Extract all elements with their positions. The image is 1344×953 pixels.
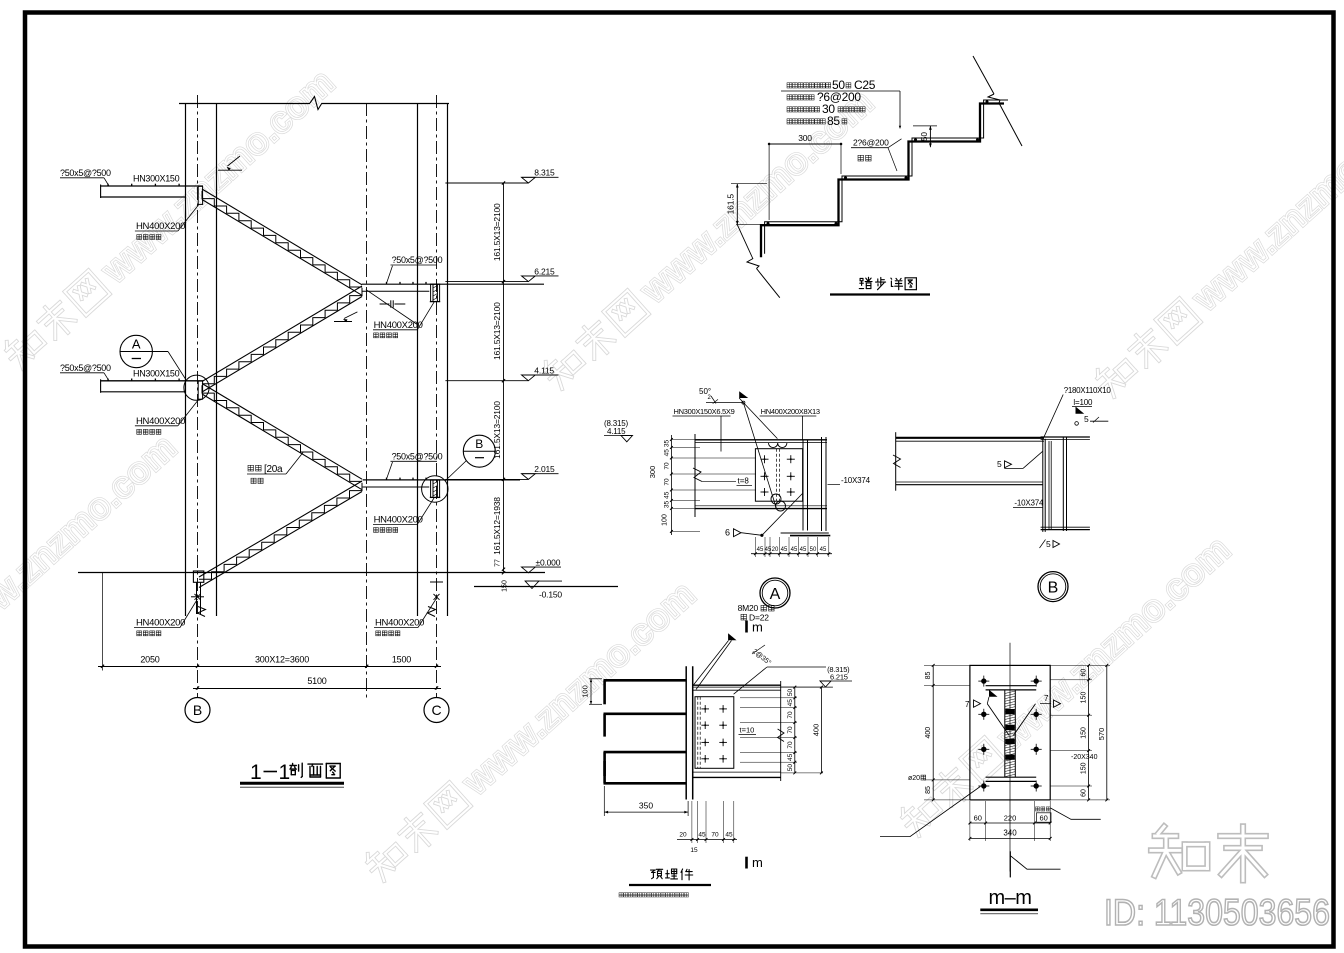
brace label [20a xyxy=(247,453,303,484)
dimension 100 hook xyxy=(581,679,603,705)
svg-text:HN400X200: HN400X200 xyxy=(374,320,423,331)
step profile steel pan xyxy=(761,104,1004,258)
left landing slab at y=186 xyxy=(101,184,203,205)
svg-text:45: 45 xyxy=(757,547,764,553)
svg-text:[20a: [20a xyxy=(264,464,283,475)
weld symbol 50deg detail A xyxy=(699,387,777,508)
svg-text:±0.000: ±0.000 xyxy=(536,557,561,567)
weld 7 right xyxy=(1040,694,1061,707)
svg-text:5: 5 xyxy=(1046,539,1051,549)
elevation marker 6.215 xyxy=(445,266,558,281)
svg-text:77: 77 xyxy=(495,559,502,567)
svg-text:60: 60 xyxy=(974,813,982,822)
svg-text:220: 220 xyxy=(1004,813,1017,822)
svg-text:60: 60 xyxy=(1040,814,1048,823)
weld 6 arrow detail A xyxy=(725,493,803,537)
detail B beam bottom flange xyxy=(896,484,1043,486)
svg-text:150: 150 xyxy=(502,580,509,592)
svg-text:85: 85 xyxy=(827,114,840,128)
leader gusset to elevation xyxy=(734,667,767,694)
base plate -20X340 xyxy=(970,665,1050,800)
step detail 踏步详图 xyxy=(726,56,1023,298)
weld arrow at top landing xyxy=(218,169,242,171)
svg-text:45: 45 xyxy=(725,832,733,839)
svg-text:70: 70 xyxy=(787,741,794,749)
svg-text:m: m xyxy=(752,620,763,635)
svg-text:5: 5 xyxy=(997,459,1002,469)
svg-text:-20X340: -20X340 xyxy=(1071,754,1098,761)
detail B - landing beam end connection xyxy=(893,386,1111,602)
section m-m detail xyxy=(880,643,1110,914)
svg-text:5: 5 xyxy=(1084,414,1089,424)
connection detail circle at 2.015 xyxy=(422,476,448,502)
detail label circle B xyxy=(1038,572,1068,602)
svg-text:70: 70 xyxy=(711,832,719,839)
svg-text:m: m xyxy=(752,855,763,870)
column C right flange xyxy=(447,103,449,616)
break cut top-right xyxy=(973,56,1022,146)
right landing at 6.215 xyxy=(362,282,544,302)
weld flag detail B xyxy=(1076,407,1085,414)
grid bubble B xyxy=(185,698,210,723)
watermark znzmo xyxy=(1090,89,1344,404)
embedded detail beam HN300X150 xyxy=(693,681,833,781)
svg-text:150: 150 xyxy=(1081,762,1088,774)
svg-text:B: B xyxy=(475,437,483,451)
m-m right dimension chains xyxy=(1050,664,1110,801)
svg-text:400: 400 xyxy=(812,724,821,737)
svg-text:C: C xyxy=(431,702,441,718)
section mark m top xyxy=(745,621,748,633)
svg-text:B: B xyxy=(1048,580,1059,597)
m-m left dimension chain 85/400/85 xyxy=(908,664,970,801)
section cut symbol below m-m xyxy=(1010,851,1060,877)
svg-text:HN400X200X8X13: HN400X200X8X13 xyxy=(761,407,820,416)
detail A - landing beam to stringer connection xyxy=(604,387,871,608)
detail B beam top flange xyxy=(896,437,1044,439)
elevation (8.315)/6.215 embedded detail xyxy=(820,665,852,687)
column C base anchor xyxy=(428,582,444,617)
svg-text:20: 20 xyxy=(772,547,779,553)
svg-text:85: 85 xyxy=(925,672,932,680)
embedded detail lower dimension chain xyxy=(677,801,737,854)
svg-text:35: 35 xyxy=(664,501,671,509)
weld leader V right xyxy=(1014,704,1036,736)
svg-text:45: 45 xyxy=(787,699,794,707)
svg-text:?50x5@?500: ?50x5@?500 xyxy=(60,363,111,373)
column B right flange xyxy=(216,103,218,616)
splice symbol at 6.215 xyxy=(380,300,406,307)
svg-text:70: 70 xyxy=(787,711,794,719)
stair flight 2 (6.215 to 4.115) xyxy=(202,286,362,392)
svg-text:6.215: 6.215 xyxy=(830,673,848,682)
svg-text:70: 70 xyxy=(664,462,671,470)
svg-text:161.5X13=2100: 161.5X13=2100 xyxy=(492,401,502,459)
weld 7 left xyxy=(965,700,981,709)
svg-text:HN300X150: HN300X150 xyxy=(133,368,180,378)
svg-text:t=10: t=10 xyxy=(740,726,755,735)
title 1-1 section xyxy=(240,761,344,787)
svg-text:45: 45 xyxy=(781,547,788,553)
elevation marker 4.115 xyxy=(445,365,558,380)
svg-text:A: A xyxy=(770,586,781,603)
label 2?6@200 per step xyxy=(851,138,902,172)
svg-text:300: 300 xyxy=(648,466,657,479)
vertical storey dimension chain xyxy=(492,181,509,591)
svg-text:8M20: 8M20 xyxy=(738,603,759,613)
column top line xyxy=(179,103,310,105)
svg-text:300: 300 xyxy=(798,133,812,143)
beam section at 2.015 (HN400X200) xyxy=(430,480,440,497)
dimension 161.5 xyxy=(726,184,769,259)
embedded plate xyxy=(685,666,687,799)
svg-text:2.015: 2.015 xyxy=(534,464,555,474)
svg-text:45: 45 xyxy=(698,832,706,839)
title m-m xyxy=(980,887,1038,914)
svg-text:6: 6 xyxy=(725,528,730,538)
svg-text:300X12=3600: 300X12=3600 xyxy=(255,655,309,665)
svg-text:1500: 1500 xyxy=(392,655,411,665)
svg-text:HN400X200: HN400X200 xyxy=(136,618,185,629)
svg-text:HN300X150: HN300X150 xyxy=(133,174,180,184)
beam section at 6.215 (HN400X200) xyxy=(430,284,440,301)
svg-text:HN300X150X6.5X9: HN300X150X6.5X9 xyxy=(674,407,735,416)
stair flight 1 (8.315 to 6.215) xyxy=(202,189,362,295)
svg-text:45: 45 xyxy=(787,753,794,761)
stringer base plate at ground xyxy=(193,571,203,582)
svg-text:60: 60 xyxy=(1081,789,1088,797)
svg-text:161.5X13=2100: 161.5X13=2100 xyxy=(492,203,502,261)
column C left flange xyxy=(417,103,419,616)
dimension 300 xyxy=(768,133,842,220)
weld 5 mid detail B xyxy=(997,451,1043,469)
svg-text:570: 570 xyxy=(1097,728,1106,741)
svg-text:1: 1 xyxy=(250,761,262,784)
svg-text:50: 50 xyxy=(810,547,817,553)
svg-text:70: 70 xyxy=(664,478,671,486)
title embedded part xyxy=(629,869,711,885)
svg-text:8.315: 8.315 xyxy=(534,168,555,178)
svg-text:HN400X200: HN400X200 xyxy=(374,515,423,526)
detail A bottom dimension chain xyxy=(751,537,832,557)
svg-text:50: 50 xyxy=(787,764,794,772)
bottom dimension 5100 xyxy=(193,676,441,690)
svg-text:HN400X200: HN400X200 xyxy=(136,416,185,427)
middle grid line (dash-dot) xyxy=(366,103,368,698)
svg-text:-0.150: -0.150 xyxy=(539,590,562,600)
break symbol column B base xyxy=(198,607,206,617)
detail A left dimension chain 300 xyxy=(648,435,756,535)
stair flight 4 (2.015 to ground) xyxy=(199,481,362,588)
weld flag m-m xyxy=(989,690,998,697)
svg-text:60: 60 xyxy=(1081,669,1088,677)
svg-text:m–m: m–m xyxy=(989,887,1032,909)
break cut bottom-left xyxy=(747,259,780,298)
detail callout circle A xyxy=(120,335,186,379)
svg-text:150: 150 xyxy=(1081,692,1088,704)
elevation marker -0.150 xyxy=(525,581,562,599)
anchor bolts m-m xyxy=(978,676,1041,792)
ground line +0.000 xyxy=(78,572,545,574)
step profile concrete line xyxy=(765,100,1008,254)
watermark znzmo xyxy=(0,426,184,741)
detail A vertical stringer HN400X200 xyxy=(769,437,831,536)
column B left flange xyxy=(185,103,187,616)
break symbol at top line xyxy=(310,97,322,110)
section view 1-1 xyxy=(60,95,618,787)
stringer I-section on plate xyxy=(986,686,1037,782)
connection detail circle at 4.115 xyxy=(184,375,209,400)
elevation marker 8.315 xyxy=(445,168,558,183)
svg-text:B: B xyxy=(193,702,202,718)
znzmo logo 知末 xyxy=(1151,826,1266,880)
svg-text:7: 7 xyxy=(965,700,970,709)
svg-text:HN400X200: HN400X200 xyxy=(136,221,185,232)
weld arrow at 6.215 apex xyxy=(334,312,357,322)
grid bubble C xyxy=(424,698,449,723)
watermark znzmo xyxy=(538,81,881,396)
svg-text:5100: 5100 xyxy=(307,676,326,686)
section mark m bottom xyxy=(745,857,748,869)
embedded part detail 预埋件 xyxy=(581,603,853,897)
svg-text:100: 100 xyxy=(662,514,669,526)
svg-text:4.115: 4.115 xyxy=(534,365,554,375)
svg-text:161.5X13=2100: 161.5X13=2100 xyxy=(492,302,502,360)
detail A gusset plate with bolts xyxy=(755,449,802,502)
detail B beam left end xyxy=(895,432,897,491)
svg-text:ø20: ø20 xyxy=(908,775,920,782)
svg-text:?50x5@?500: ?50x5@?500 xyxy=(392,452,443,462)
svg-text:-10X374: -10X374 xyxy=(1014,499,1044,508)
elevation marker 2.015 xyxy=(445,464,558,479)
svg-text:A: A xyxy=(132,337,141,352)
centerline m-m xyxy=(1009,643,1011,872)
grid line C (dash-dot) xyxy=(436,95,438,698)
svg-text:340: 340 xyxy=(1003,829,1017,838)
svg-text:50: 50 xyxy=(920,132,929,141)
detail label circle A xyxy=(760,578,790,608)
svg-text:?50x5@?500: ?50x5@?500 xyxy=(392,255,443,265)
svg-text:85: 85 xyxy=(925,786,932,794)
svg-text:HN400X200: HN400X200 xyxy=(375,618,424,629)
svg-text:161.5: 161.5 xyxy=(726,194,736,215)
svg-text:161.5X12=1938: 161.5X12=1938 xyxy=(492,497,502,555)
weld circle symbol detail B xyxy=(1075,422,1079,426)
embedded detail gusset plate with bolts xyxy=(695,697,734,769)
svg-text:15: 15 xyxy=(690,847,698,854)
elevation marker +0.000 xyxy=(522,557,562,573)
grid line B (dash-dot) xyxy=(197,95,199,698)
elevation (8.315)/4.115 at detail A xyxy=(604,419,633,442)
leader line bottom-left m-m xyxy=(880,787,980,837)
leader line bottom-right m-m xyxy=(1051,808,1101,819)
dimension 50 xyxy=(913,126,937,147)
svg-text:350: 350 xyxy=(639,801,653,811)
svg-text:35: 35 xyxy=(664,440,671,448)
svg-text:?50x5@?500: ?50x5@?500 xyxy=(60,168,111,178)
detail A beam HN300X150 xyxy=(693,434,827,517)
svg-text:45: 45 xyxy=(791,547,798,553)
left landing slab at y=380.8 xyxy=(101,379,203,400)
column B base anchor xyxy=(191,594,206,617)
svg-text:?180X110X10: ?180X110X10 xyxy=(1064,386,1112,395)
svg-text:2?6@200: 2?6@200 xyxy=(853,138,889,148)
svg-text:50: 50 xyxy=(787,689,794,697)
svg-text:4.115: 4.115 xyxy=(607,427,626,436)
svg-text:ID: 1130503656: ID: 1130503656 xyxy=(1104,892,1330,933)
svg-text:70: 70 xyxy=(787,726,794,734)
weld 5 bottom detail B xyxy=(1040,539,1060,549)
leader to HN400X200 label at 6.215 xyxy=(366,290,417,325)
svg-text:150: 150 xyxy=(1081,727,1088,739)
stair flight 3 (4.115 to 2.015) xyxy=(202,384,362,490)
svg-text:45: 45 xyxy=(800,547,807,553)
weld flag embedded detail xyxy=(728,633,736,640)
title step detail xyxy=(830,277,930,294)
svg-text:6.215: 6.215 xyxy=(534,266,555,276)
svg-text:20: 20 xyxy=(679,832,687,839)
svg-text:1: 1 xyxy=(279,761,291,784)
embedded detail right dimension chain 400 xyxy=(740,686,823,775)
lower ground line -0.150 xyxy=(474,586,618,588)
break symbol detail B xyxy=(893,455,901,468)
anchor bars xyxy=(604,680,687,783)
svg-text:45: 45 xyxy=(820,547,827,553)
svg-text:45: 45 xyxy=(664,449,671,457)
svg-text:100: 100 xyxy=(581,685,590,698)
weld leader V left xyxy=(987,704,1009,736)
break symbol on beam xyxy=(693,468,702,482)
svg-text:-10X374: -10X374 xyxy=(841,476,871,485)
svg-text:t=8: t=8 xyxy=(738,477,750,486)
svg-text:l=100: l=100 xyxy=(1073,398,1093,407)
dimension 350 xyxy=(604,786,688,816)
m-m bottom dimension chains xyxy=(969,801,1052,841)
watermark znzmo xyxy=(895,528,1238,843)
watermark znzmo xyxy=(360,573,703,888)
svg-text:7: 7 xyxy=(1044,694,1049,703)
svg-text:400: 400 xyxy=(925,727,932,739)
svg-text:2050: 2050 xyxy=(140,655,159,665)
right landing at 2.015 xyxy=(363,478,520,498)
svg-text:45: 45 xyxy=(664,491,671,499)
break symbol column C base xyxy=(428,607,436,617)
watermark znzmo xyxy=(0,61,342,376)
detail callout circle B xyxy=(445,435,495,481)
detail B vertical plate and stringer xyxy=(1041,437,1090,532)
bottom dimension chain 2050/3600/1500 xyxy=(98,573,441,671)
step detail annotation text xyxy=(781,78,901,129)
znzmo ID number xyxy=(1104,892,1330,933)
